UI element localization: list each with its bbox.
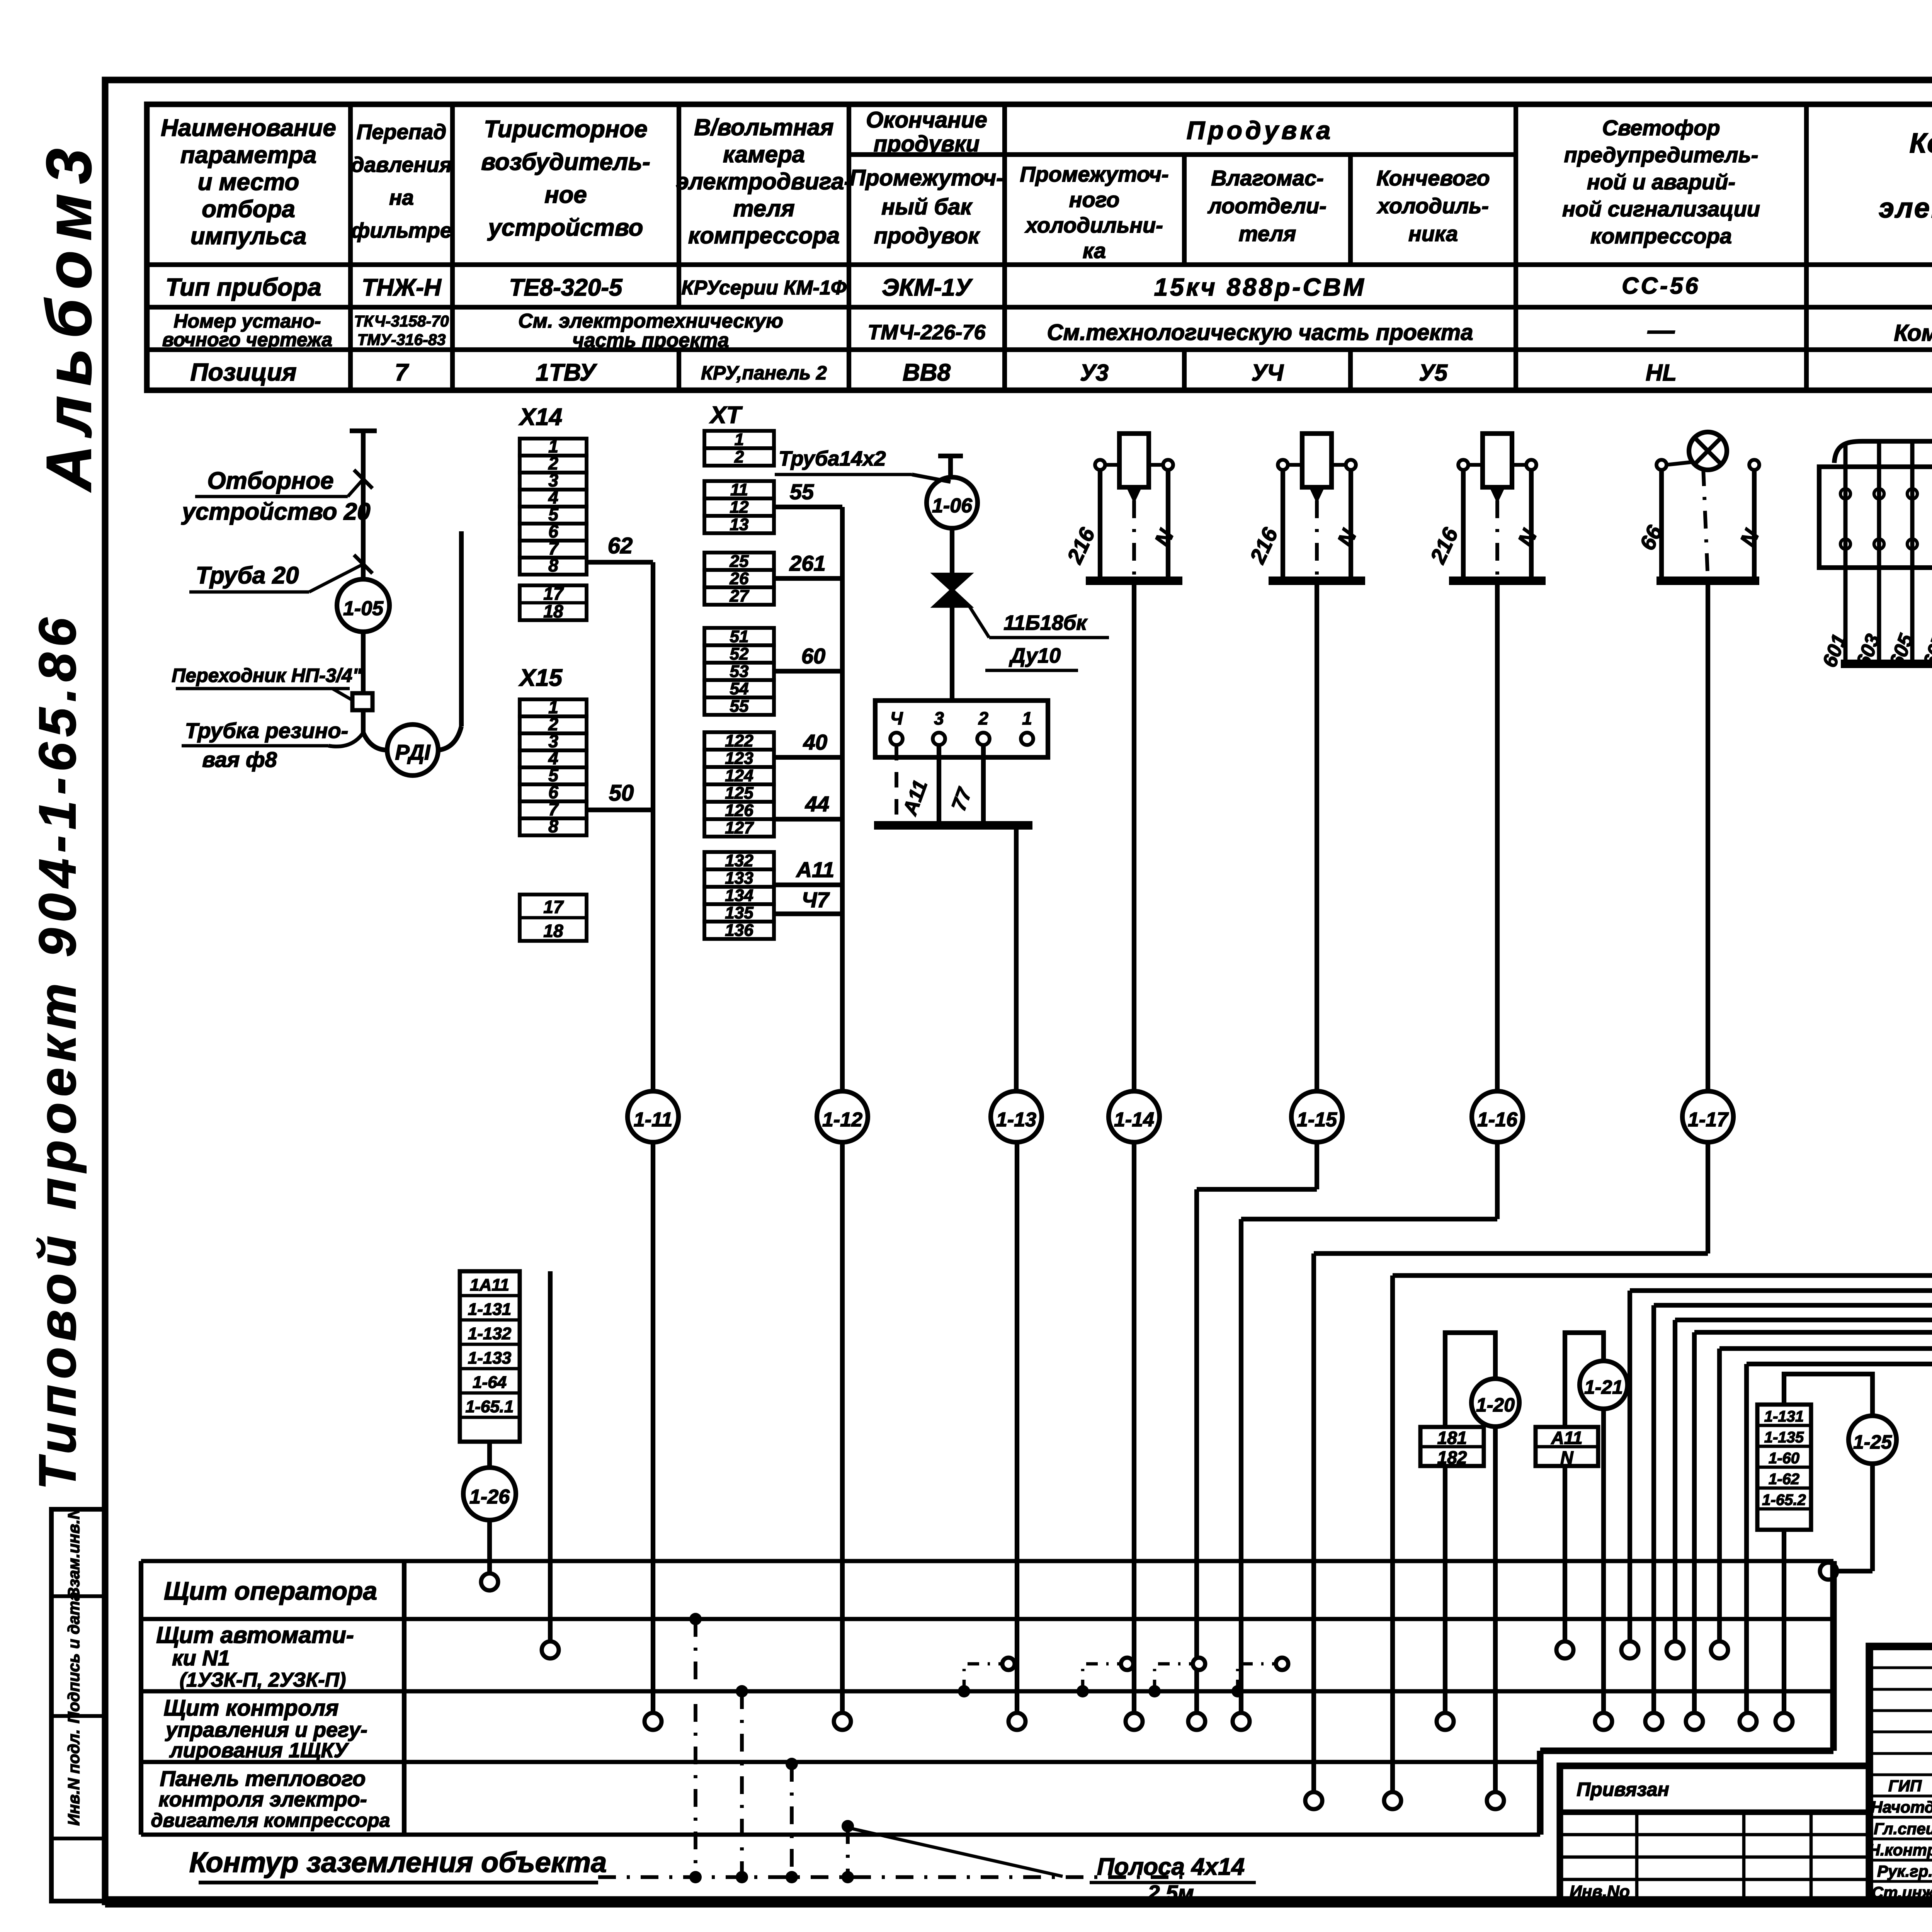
table line below Номер row (147, 347, 1932, 352)
svg-text:Тип прибора: Тип прибора (165, 273, 321, 301)
cable riser to 1-12 (840, 507, 845, 1090)
terminal box upper contact 601 (1840, 489, 1850, 499)
svg-text:53: 53 (730, 662, 749, 681)
svg-text:125: 125 (725, 784, 753, 803)
X15 row 7 (520, 801, 587, 818)
motor terminal box Коробка клеммная (1819, 467, 1932, 568)
terminal 1-21b (1595, 1713, 1612, 1730)
connector wire to 1-25 (1784, 1374, 1872, 1416)
underline Переходник (176, 687, 350, 690)
cable circle 1-12 (817, 1091, 868, 1142)
impulse pipe lower segment (361, 710, 366, 733)
terminal box lower contact 605 (1907, 539, 1917, 549)
svg-text:Позиция: Позиция (190, 358, 297, 386)
svg-text:62: 62 (608, 533, 633, 558)
pressure switch circle РДI (387, 724, 438, 776)
panel row line bottom (141, 1833, 1540, 1837)
svg-text:лирования 1ЩКУ: лирования 1ЩКУ (169, 1739, 349, 1762)
lamp left lead (1659, 470, 1664, 581)
svg-text:18: 18 (543, 921, 563, 941)
wire to automation panel (548, 1271, 553, 1641)
X15 row 2 (520, 716, 587, 733)
cable circle 1-21 (1580, 1361, 1628, 1409)
svg-text:Комплектно с электродвигателем: Комплектно с электродвигателем (1894, 320, 1932, 346)
wire 50 horizontal (587, 808, 653, 812)
XT group 25-27 (704, 553, 774, 570)
svg-text:124: 124 (725, 766, 753, 785)
cable 1-11 down to panel (651, 1142, 655, 1713)
panel table left edge (139, 1561, 143, 1835)
svg-text:1: 1 (1022, 708, 1032, 728)
U3 left lead (1098, 470, 1102, 581)
svg-text:40: 40 (803, 730, 827, 754)
cable 1-24 jog horizontal (1719, 1346, 1932, 1351)
panel row line Панель теплового top (141, 1760, 1540, 1764)
cable 1-17 down to jog (1706, 1142, 1710, 1253)
column line Тиристорное/Камера lower (677, 350, 681, 390)
panel table label divider (402, 1561, 406, 1835)
svg-text:Наименование: Наименование (161, 115, 336, 141)
U4 right terminal (1346, 460, 1356, 470)
x mark on pipe 1 (354, 470, 372, 488)
svg-text:лоотдели-: лоотдели- (1207, 194, 1327, 218)
svg-text:управления и регу-: управления и регу- (165, 1718, 367, 1742)
svg-text:Взам.инв.N: Взам.инв.N (65, 1507, 83, 1599)
wire table 1-131...1-65.2 (1757, 1405, 1811, 1530)
cable 1-24 down to panel (1717, 1349, 1722, 1644)
XT group 11-13 (704, 481, 774, 498)
svg-text:отбора: отбора (202, 196, 295, 223)
cable 1-13 down to panel (1015, 1142, 1019, 1713)
title zone step vertical (1830, 1561, 1837, 1751)
svg-text:N: N (1560, 1447, 1573, 1468)
svg-text:1-16: 1-16 (1477, 1109, 1518, 1131)
wire А11 from pin 3 (937, 745, 941, 823)
svg-text:1-65.1: 1-65.1 (466, 1397, 514, 1416)
svg-text:ВВ8: ВВ8 (903, 359, 951, 386)
heavy bar under terminal box (1841, 660, 1932, 668)
svg-text:13: 13 (730, 515, 749, 534)
cable 1-16 jog horizontal (1241, 1217, 1497, 1221)
sub header line under Продувка (849, 152, 1516, 157)
cable 1-23b jog horizontal (1694, 1330, 1932, 1335)
svg-text:теля: теля (1239, 221, 1296, 246)
svg-text:1-64: 1-64 (473, 1373, 507, 1392)
wire from table 1-25 down (1782, 1530, 1786, 1718)
terminal 1-24b (1740, 1713, 1757, 1730)
U5 center dash-dot (1495, 500, 1499, 581)
svg-text:Влагомас-: Влагомас- (1211, 166, 1323, 190)
svg-text:8: 8 (548, 816, 558, 836)
dash-dot elbow x=2802 (1083, 1664, 1121, 1691)
X14 row 8 (520, 558, 587, 575)
svg-text:СС-56: СС-56 (1622, 273, 1700, 299)
U3 left terminal (1095, 460, 1105, 470)
U3 plunger tip (1128, 487, 1140, 500)
svg-text:X15: X15 (519, 665, 563, 691)
Продувка sub column line 1 lower (1182, 350, 1187, 390)
terminal 1-25 on Щит оператора (1820, 1563, 1837, 1580)
earth junction x=1920 (736, 1871, 748, 1883)
valve lower triangle (935, 590, 969, 606)
svg-text:123: 123 (725, 749, 753, 768)
svg-text:44: 44 (805, 792, 829, 816)
svg-text:133: 133 (725, 869, 753, 888)
svg-text:См.технологическую часть проек: См.технологическую часть проекта (1047, 320, 1473, 345)
cable 1-17 jog horizontal (1314, 1251, 1708, 1256)
terminal 1-20b (1487, 1792, 1504, 1809)
X15 rows 17-18 box (520, 895, 587, 941)
svg-text:2,5м: 2,5м (1147, 1881, 1194, 1905)
Продувка sub column line 2 lower (1348, 350, 1353, 390)
callout to pipe 1-06 (912, 474, 951, 482)
pipe from 1-06 to valve (950, 529, 954, 575)
junction on bottom row (842, 1820, 854, 1832)
pipe curve from РДI to riser (439, 726, 461, 750)
pipe stub to 1-06 (948, 456, 953, 476)
U4 left lead (1281, 470, 1285, 581)
junction on контроля row (736, 1685, 748, 1697)
wire А11 tap (774, 883, 842, 887)
panel row line Щит контроля top (141, 1689, 1833, 1694)
svg-text:КРУ,панель 2: КРУ,панель 2 (701, 362, 827, 384)
terminal 1-12 (834, 1713, 851, 1730)
dash-dot elbow x=3203 (1238, 1664, 1276, 1691)
wire 261 tap (774, 576, 842, 581)
svg-text:ТКЧ-3158-70: ТКЧ-3158-70 (354, 312, 449, 330)
svg-text:Привязан: Привязан (1577, 1779, 1669, 1800)
second impulse riser (459, 531, 464, 726)
terminal 1-17 (1305, 1792, 1322, 1809)
parameter table outer border (147, 104, 1932, 390)
table column line x=3923 (1514, 104, 1518, 390)
terminal box lower contact 601 (1840, 539, 1850, 549)
svg-text:HL: HL (1646, 360, 1677, 386)
svg-text:ТЕ8-320-5: ТЕ8-320-5 (509, 274, 623, 301)
cable 1-16 down to jog (1495, 1142, 1500, 1219)
svg-text:устройство 20: устройство 20 (181, 498, 370, 525)
cable circle 1-11 (628, 1091, 679, 1142)
svg-text:17: 17 (543, 897, 564, 917)
pipe top tee cap (350, 429, 377, 433)
callout line to adapter (332, 689, 352, 700)
svg-text:1-65.2: 1-65.2 (1762, 1492, 1806, 1509)
U4 heavy base bar (1269, 577, 1365, 585)
junction box pin circle Ч (890, 733, 903, 745)
X15 row 1 (520, 699, 587, 716)
svg-text:261: 261 (789, 551, 825, 575)
earth contour dash-dot line (598, 1875, 1182, 1879)
cable riser to 1-14 (1132, 581, 1136, 1090)
Продувка sub column line 1 (1182, 155, 1187, 265)
wire 77 from pin 2 (981, 745, 986, 823)
svg-text:продувки: продувки (874, 131, 980, 156)
wire table А11/N (1536, 1427, 1598, 1466)
terminal 1-22a (1621, 1641, 1638, 1658)
table column line x=4675 (1804, 104, 1809, 390)
cable circle 1-15 (1291, 1091, 1342, 1142)
elbow terminal x=2988 (1193, 1658, 1205, 1670)
terminal box upper contact 605 (1907, 489, 1917, 499)
earth tap wire 3 (790, 1764, 794, 1877)
svg-text:Щит оператора: Щит оператора (164, 1577, 377, 1605)
cable 1-12 down to panel (840, 1142, 845, 1713)
lamp right terminal (1749, 460, 1759, 470)
svg-text:УЧ: УЧ (1251, 360, 1284, 386)
underline Отборное (195, 495, 348, 498)
cable circle 1-20 (1471, 1379, 1519, 1427)
earth junction x=2194 (842, 1871, 854, 1883)
X15 row 3 (520, 733, 587, 750)
svg-text:теля: теля (733, 196, 794, 221)
svg-text:181: 181 (1437, 1428, 1467, 1448)
cable circle 1-17 (1682, 1091, 1733, 1142)
pipe tee cap 1-06 (938, 454, 963, 458)
svg-text:ной и аварий-: ной и аварий- (1587, 170, 1735, 194)
panel row line Щит автоматики top (141, 1617, 1833, 1621)
svg-text:Полоса 4х14: Полоса 4х14 (1097, 1854, 1245, 1880)
svg-text:Ч7: Ч7 (802, 888, 830, 912)
svg-text:ки N1: ки N1 (172, 1646, 230, 1670)
callout line to x mark 2 (309, 564, 363, 592)
title zone step horizontal (1540, 1747, 1833, 1754)
svg-text:1ТВУ: 1ТВУ (536, 359, 597, 386)
svg-text:ГИП: ГИП (1888, 1777, 1922, 1795)
cable circle 1-16 (1472, 1091, 1523, 1142)
terminal table 1-25 (1776, 1713, 1793, 1730)
terminal 1-23a (1667, 1641, 1684, 1658)
table line below Тип прибора row (147, 305, 1932, 310)
svg-text:8: 8 (548, 555, 558, 575)
x mark on pipe 2 (354, 555, 372, 573)
cable circle 1-25 (1849, 1416, 1896, 1464)
X15 row 5 (520, 767, 587, 784)
X15 row 8 (520, 818, 587, 835)
impulse pipe upper segment (361, 431, 366, 579)
X15 row 6 (520, 784, 587, 801)
cable circle 1-14 (1109, 1091, 1160, 1142)
heavy bar under junction box (874, 821, 1032, 830)
svg-text:Щит автомати-: Щит автомати- (156, 1622, 354, 1648)
table column line x=1171 (450, 104, 455, 390)
svg-text:параметра: параметра (180, 142, 317, 168)
wire Ч7 tap (774, 912, 842, 916)
terminal box wire 603 (1877, 442, 1881, 664)
svg-text:(1УЗК-П, 2УЗК-П): (1УЗК-П, 2УЗК-П) (180, 1669, 346, 1691)
Продувка sub column line 2 (1348, 155, 1353, 265)
Привязан box (1560, 1766, 1869, 1901)
svg-text:У3: У3 (1080, 360, 1109, 386)
svg-text:Типовой проект 904-1-65.86: Типовой проект 904-1-65.86 (28, 612, 87, 1490)
dashed wire from pin Ч (895, 745, 898, 823)
U4 center dash-dot (1315, 500, 1319, 581)
cable 1-24b down to panel (1744, 1364, 1749, 1718)
svg-text:3: 3 (934, 708, 944, 728)
svg-text:Труба14х2: Труба14х2 (779, 447, 886, 470)
earth tap wire 4 (846, 1826, 850, 1877)
svg-text:15кч 888р-СВМ: 15кч 888р-СВМ (1154, 273, 1366, 301)
XT group 122-127 (704, 732, 774, 750)
callout line to x mark 1 (348, 479, 363, 497)
svg-text:127: 127 (725, 818, 754, 837)
elbow junction x=2988 (1148, 1685, 1161, 1697)
svg-text:холодиль-: холодиль- (1376, 194, 1489, 218)
svg-text:Панель теплового: Панель теплового (160, 1766, 366, 1791)
X14 row 1 (520, 439, 587, 456)
cable 1-15 down to jog (1315, 1142, 1319, 1189)
wire 1-26 to operator panel (487, 1520, 492, 1573)
cable 1-23 jog horizontal (1675, 1318, 1932, 1322)
svg-text:импульса: импульса (190, 223, 306, 250)
lamp cross 2 (1695, 438, 1721, 464)
svg-text:устройство: устройство (487, 214, 643, 241)
svg-text:50: 50 (609, 781, 634, 806)
pipe from valve to junction box (950, 606, 954, 701)
svg-text:X14: X14 (519, 404, 562, 430)
wire 62 horizontal (587, 560, 653, 565)
svg-text:вая ф8: вая ф8 (202, 747, 277, 772)
svg-text:давления: давления (351, 153, 452, 177)
svg-text:1-60: 1-60 (1769, 1450, 1799, 1467)
earth tap wire 1 (694, 1619, 697, 1877)
svg-text:Подпись и дата: Подпись и дата (65, 1592, 83, 1723)
svg-text:17: 17 (543, 583, 564, 604)
wire 40 tap (774, 755, 842, 760)
U5 right lead (1529, 470, 1534, 581)
svg-text:2: 2 (734, 447, 744, 466)
svg-text:Гл.спец: Гл.спец (1874, 1820, 1932, 1838)
earth junction x=1800 (689, 1871, 702, 1883)
svg-text:компрессора: компрессора (688, 223, 840, 248)
lamp circle HL (1689, 432, 1727, 470)
svg-text:двигателя компрессора: двигателя компрессора (151, 1810, 390, 1831)
terminal 1-13 (1009, 1713, 1026, 1730)
U3 heavy base bar (1086, 577, 1182, 585)
svg-text:25: 25 (730, 552, 749, 571)
U3 center dash-dot (1132, 500, 1136, 581)
wire 44 tap (774, 817, 842, 821)
svg-text:XT: XT (709, 402, 743, 429)
svg-text:А11: А11 (1551, 1428, 1583, 1448)
svg-text:холодильни-: холодильни- (1024, 213, 1163, 237)
svg-text:134: 134 (725, 886, 753, 905)
cable 1-24b jog horizontal (1747, 1362, 1932, 1366)
svg-text:136: 136 (725, 921, 753, 940)
svg-text:51: 51 (730, 627, 749, 646)
svg-text:Продувка: Продувка (1187, 116, 1333, 145)
panel row line Щит оператора top (141, 1559, 1833, 1563)
lamp center dash-dot (1703, 468, 1708, 581)
elbow junction x=2802 (1077, 1685, 1089, 1697)
svg-text:132: 132 (725, 851, 753, 870)
svg-text:12: 12 (730, 498, 749, 517)
svg-text:Рук.гр.: Рук.гр. (1877, 1862, 1932, 1880)
svg-text:электродвигателя компрес-: электродвигателя компрес- (1879, 193, 1932, 224)
cable 1-14 down (1132, 1142, 1136, 1713)
svg-text:Промежуточ-: Промежуточ- (1020, 162, 1168, 186)
lamp right lead (1752, 470, 1757, 581)
svg-text:В/вольтная: В/вольтная (694, 114, 833, 140)
svg-text:7: 7 (395, 359, 409, 386)
terminal box upper contact 603 (1874, 489, 1884, 499)
svg-text:1-135: 1-135 (1764, 1429, 1804, 1446)
svg-text:на: на (389, 185, 414, 209)
column line Тиристорное/Камера upper (677, 104, 681, 307)
wire table 1А11...1-65.1 (460, 1271, 520, 1442)
dash-dot elbow x=2495 (964, 1664, 1002, 1691)
svg-text:52: 52 (730, 645, 749, 663)
terminal box lower contact 603 (1874, 539, 1884, 549)
svg-text:возбудитель-: возбудитель- (481, 149, 650, 175)
elbow terminal x=2495 (1002, 1658, 1015, 1670)
X14 row 7 (520, 541, 587, 558)
X14 row 5 (520, 507, 587, 524)
title zone step vertical 2 (1537, 1751, 1543, 1835)
junction on автоматики row (689, 1613, 702, 1625)
underline Трубка (182, 744, 328, 748)
svg-text:Ст.инж.: Ст.инж. (1872, 1883, 1932, 1901)
svg-text:1-15: 1-15 (1297, 1109, 1337, 1131)
svg-text:предупредитель-: предупредитель- (1564, 143, 1759, 167)
callout curve to pipe end (328, 733, 363, 747)
svg-text:18: 18 (543, 601, 563, 621)
svg-text:11Б18бк: 11Б18бк (1003, 611, 1088, 634)
X14 rows 17-18 box (520, 585, 587, 620)
svg-text:Инв.No: Инв.No (1570, 1882, 1630, 1901)
terminal 1-18 (1384, 1792, 1401, 1809)
instrument circle 1-06 (927, 477, 978, 528)
wire from 1-25 down (1870, 1464, 1875, 1571)
cable 1-22b down to panel (1651, 1305, 1656, 1718)
svg-text:вочного чертежа: вочного чертежа (162, 329, 332, 350)
earth tap wire 2 (740, 1691, 744, 1877)
svg-text:Промежуточ-: Промежуточ- (849, 165, 1003, 190)
svg-text:ТНЖ-Н: ТНЖ-Н (362, 274, 442, 301)
svg-text:часть проекта: часть проекта (572, 329, 729, 352)
svg-text:продувок: продувок (874, 223, 980, 248)
cable 1-23b down to panel (1692, 1332, 1697, 1718)
elbow junction x=3203 (1231, 1685, 1244, 1697)
wires 1-20 pair (1445, 1333, 1495, 1795)
curly brace (1834, 425, 1932, 463)
svg-text:ное: ное (544, 182, 587, 208)
svg-text:2: 2 (978, 708, 988, 728)
U3 coil (1119, 434, 1149, 487)
U5 heavy base bar (1449, 577, 1546, 585)
elbow terminal x=2802 (1121, 1658, 1133, 1670)
svg-text:1А11: 1А11 (470, 1276, 509, 1294)
title block outer (1869, 1646, 1932, 1903)
wire table to 1-26 (487, 1442, 492, 1468)
terminal 1-22b (1645, 1713, 1662, 1730)
svg-text:126: 126 (725, 801, 753, 820)
junction box (875, 701, 1048, 757)
svg-text:—: — (1647, 315, 1675, 345)
cable 1-18 down to panel (1390, 1276, 1395, 1795)
svg-text:1-25: 1-25 (1853, 1431, 1892, 1453)
svg-text:1: 1 (735, 430, 744, 449)
earth junction x=2049 (786, 1871, 798, 1883)
svg-text:1-131: 1-131 (468, 1300, 512, 1319)
cable 1-22 jog horizontal (1630, 1288, 1932, 1293)
svg-text:компрессора: компрессора (1590, 224, 1732, 248)
svg-text:Ду10: Ду10 (1009, 644, 1061, 667)
junction box pin circle 1 (1021, 733, 1033, 745)
svg-text:182: 182 (1437, 1447, 1467, 1468)
terminal 1-15 (1188, 1713, 1205, 1730)
svg-text:60: 60 (801, 644, 825, 668)
cable circle 1-13 (991, 1091, 1042, 1142)
